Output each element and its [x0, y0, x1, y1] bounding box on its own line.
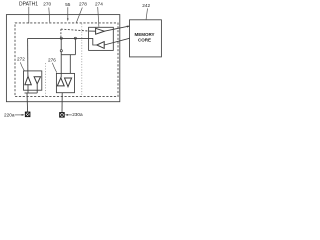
svg-text:278: 278 [79, 2, 87, 7]
drop B from C2 [74, 40, 76, 55]
arrowhead into memory core [127, 26, 130, 28]
arrow 230a [66, 114, 72, 116]
left-pointing triangle (read amp) [97, 42, 104, 49]
label DPATH1 leader [28, 7, 30, 24]
272 bottom stubs [27, 85, 29, 93]
outer DPATH block boundary [6, 15, 119, 102]
junction circle C1 [60, 37, 62, 39]
272 up triangle [25, 76, 31, 84]
pad 220a symbol [25, 112, 30, 117]
memory core box 242 [130, 20, 162, 57]
text labels [4, 1, 151, 117]
svg-text:220a: 220a [4, 113, 15, 118]
label 55 leader arrow [67, 7, 69, 20]
junction circle C3 [60, 50, 62, 52]
svg-text:55: 55 [65, 2, 71, 7]
svg-text:DPATH1: DPATH1 [19, 2, 38, 8]
second entry to right cell [69, 55, 71, 74]
bus jog inside buffer box [89, 38, 97, 45]
label 278 leader [76, 8, 82, 23]
label MEMORY CORE [134, 32, 154, 42]
label 274 leader [98, 7, 99, 27]
wire memory to buffer (bottom, sloped) [104, 38, 130, 45]
276 up triangle [57, 78, 64, 86]
drop A lower to right cell [60, 52, 62, 78]
buffer box 274 [89, 27, 114, 50]
svg-text:230a: 230a [72, 112, 83, 117]
svg-text:MEMORY: MEMORY [134, 32, 154, 37]
faint dashed cell boundary right [81, 24, 83, 97]
bus wire [28, 37, 89, 39]
label 242 leader [146, 8, 147, 19]
label 272 leader [20, 62, 24, 70]
wire to pad 230a [61, 93, 63, 113]
I/O cell 276 box [56, 73, 74, 92]
svg-text:274: 274 [95, 2, 103, 7]
I/O cell 272 box [24, 71, 42, 90]
svg-text:276: 276 [48, 58, 56, 63]
svg-text:242: 242 [142, 3, 150, 8]
label 270 leader [49, 8, 50, 23]
pad 230a symbol [60, 113, 64, 118]
272 merge jog [25, 92, 38, 94]
bus corner drop to left cell [27, 38, 29, 76]
faint dashed cell boundary left [45, 63, 47, 97]
jog wire [61, 54, 75, 56]
276 down triangle [65, 78, 72, 87]
272 down triangle [34, 77, 40, 84]
wire to pad 220a [26, 93, 29, 112]
drop A upper [60, 40, 62, 50]
dashed block 270 [15, 23, 118, 97]
svg-text:272: 272 [17, 57, 25, 62]
svg-text:270: 270 [43, 1, 51, 6]
solid continuation to driver base [89, 30, 96, 32]
dashed vertical joining bus [60, 29, 62, 37]
label 276 leader [52, 63, 57, 73]
junction circle C2 [74, 37, 76, 39]
svg-text:CORE: CORE [138, 37, 151, 42]
dashed wire to buffer input [61, 29, 89, 31]
wire buffer to memory (top, sloped) [104, 26, 129, 31]
right-pointing triangle (write driver) [96, 28, 105, 34]
arrow 220a [15, 114, 23, 116]
